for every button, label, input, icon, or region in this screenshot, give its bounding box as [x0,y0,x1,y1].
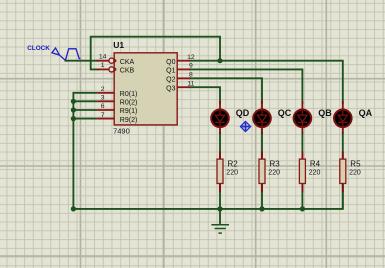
svg-text:R0(2): R0(2) [120,100,138,107]
svg-text:U1: U1 [113,40,124,50]
svg-text:220: 220 [226,170,238,177]
svg-text:R9(1): R9(1) [120,108,138,115]
svg-text:Q3: Q3 [166,85,175,92]
svg-text:R3: R3 [270,159,281,168]
svg-text:220: 220 [309,170,321,177]
svg-text:CLOCK: CLOCK [27,45,50,52]
svg-text:9: 9 [189,63,193,70]
svg-text:Q1: Q1 [166,68,175,75]
svg-text:QD: QD [236,108,250,118]
svg-text:220: 220 [268,170,280,177]
svg-text:Q0: Q0 [166,59,175,66]
svg-text:CKB: CKB [120,68,135,75]
svg-text:2: 2 [101,86,105,93]
svg-text:3: 3 [101,95,105,102]
svg-text:14: 14 [99,53,107,60]
svg-text:220: 220 [349,170,361,177]
svg-text:11: 11 [187,80,194,87]
svg-text:QC: QC [278,108,292,118]
svg-text:8: 8 [189,72,193,79]
svg-text:7490: 7490 [113,127,130,136]
svg-text:6: 6 [101,103,105,110]
svg-text:7: 7 [101,112,105,119]
svg-text:12: 12 [187,54,195,61]
svg-text:QA: QA [359,108,373,118]
svg-text:R5: R5 [350,159,361,168]
svg-text:1: 1 [101,62,105,69]
svg-text:R4: R4 [310,159,321,168]
svg-text:CKA: CKA [120,59,135,66]
svg-text:R0(1): R0(1) [120,91,138,98]
svg-text:R9(2): R9(2) [120,117,138,124]
svg-text:QB: QB [318,108,332,118]
svg-text:Q2: Q2 [166,77,175,84]
svg-text:R2: R2 [228,159,239,168]
